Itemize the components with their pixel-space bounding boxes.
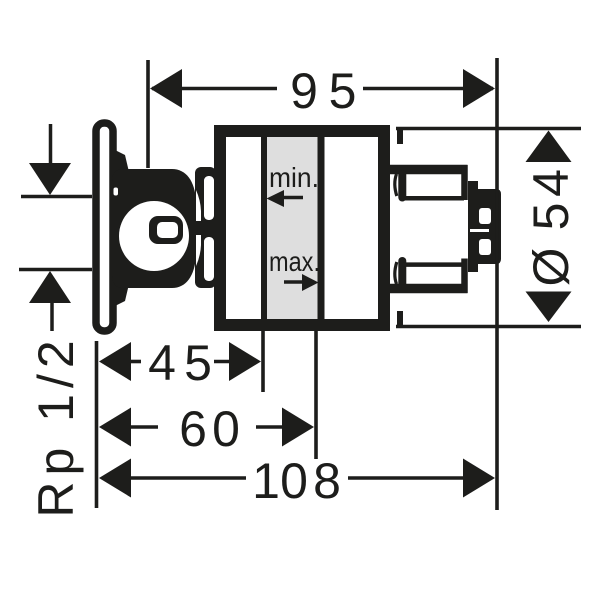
cap inner line lower <box>403 262 464 267</box>
Rp 1/2 label <box>28 334 84 517</box>
svg-text:5: 5 <box>329 63 357 119</box>
gap blob/bracket bottom <box>196 235 201 266</box>
spindle window <box>119 201 189 271</box>
gap blob/bracket top <box>196 190 201 221</box>
left dim line upper <box>21 195 92 199</box>
bottom dims extension left <box>95 341 99 508</box>
dim D54 line bottom <box>396 325 581 329</box>
left dim arrow up <box>29 271 71 303</box>
svg-text:min.: min. <box>269 162 319 193</box>
main body <box>220 131 384 325</box>
broach slot <box>149 216 183 244</box>
flange wedge bottom <box>115 284 129 306</box>
cap top-left lip <box>398 174 406 198</box>
cap bottom-left lip <box>398 261 406 284</box>
min position line <box>261 137 267 319</box>
adjustment zone gray band <box>267 137 318 319</box>
svg-text:Ø: Ø <box>523 248 579 287</box>
cap inner line upper <box>403 196 464 201</box>
dim 60 arrow right <box>282 408 314 447</box>
svg-text:0: 0 <box>280 453 308 509</box>
svg-text:8: 8 <box>313 453 341 509</box>
svg-text:1: 1 <box>252 453 280 509</box>
dim 45 extension right <box>261 331 265 392</box>
dim 108 arrow left <box>99 459 131 498</box>
mounting bracket <box>195 167 216 288</box>
svg-text:5: 5 <box>184 335 212 391</box>
spindle spline end <box>468 181 501 272</box>
valve flange body <box>112 169 196 288</box>
svg-text:4: 4 <box>148 335 176 391</box>
dim 45 line <box>131 360 141 364</box>
left dim tail bottom <box>50 303 54 331</box>
svg-text:9: 9 <box>290 63 318 119</box>
max arrow <box>284 280 305 283</box>
dim 95 arrow right <box>463 69 495 108</box>
dim 95 line <box>152 87 277 91</box>
cap top bar <box>390 165 468 175</box>
left dim arrow down <box>29 163 71 195</box>
dim 95/108 extension right <box>495 58 499 510</box>
svg-text:Rp 1/2: Rp 1/2 <box>28 334 84 517</box>
left dim tail top <box>49 124 53 163</box>
flange wedge top <box>115 150 129 172</box>
dim 60 arrow left <box>99 408 131 447</box>
svg-text:max.: max. <box>269 246 320 277</box>
max position line <box>318 137 325 319</box>
cap right edge lower <box>461 259 468 294</box>
svg-text:0: 0 <box>212 401 240 457</box>
notch plate/flange <box>114 188 119 196</box>
svg-text:5: 5 <box>523 203 579 231</box>
dim 108 line <box>131 476 246 480</box>
dim 108 arrow right <box>463 459 495 498</box>
min arrow <box>281 196 303 199</box>
dim 45 arrow right <box>229 342 261 381</box>
svg-text:6: 6 <box>179 401 207 457</box>
svg-text:4: 4 <box>523 169 579 197</box>
dim D54 arrow up <box>526 131 572 163</box>
dim D54 line top <box>396 127 581 131</box>
wall plate <box>96 123 113 331</box>
dim 45 arrow left <box>99 342 131 381</box>
dim 95 arrow left <box>150 69 182 108</box>
dim 60 extension right <box>314 331 318 459</box>
left dim line lower <box>19 268 92 272</box>
cap right edge upper <box>461 165 468 200</box>
cap bottom bar <box>390 284 468 294</box>
dim 60 line <box>131 425 158 429</box>
dim D54 arrow down <box>526 292 572 323</box>
dim D54 text <box>523 169 579 286</box>
dim 95 extension left <box>146 60 150 168</box>
